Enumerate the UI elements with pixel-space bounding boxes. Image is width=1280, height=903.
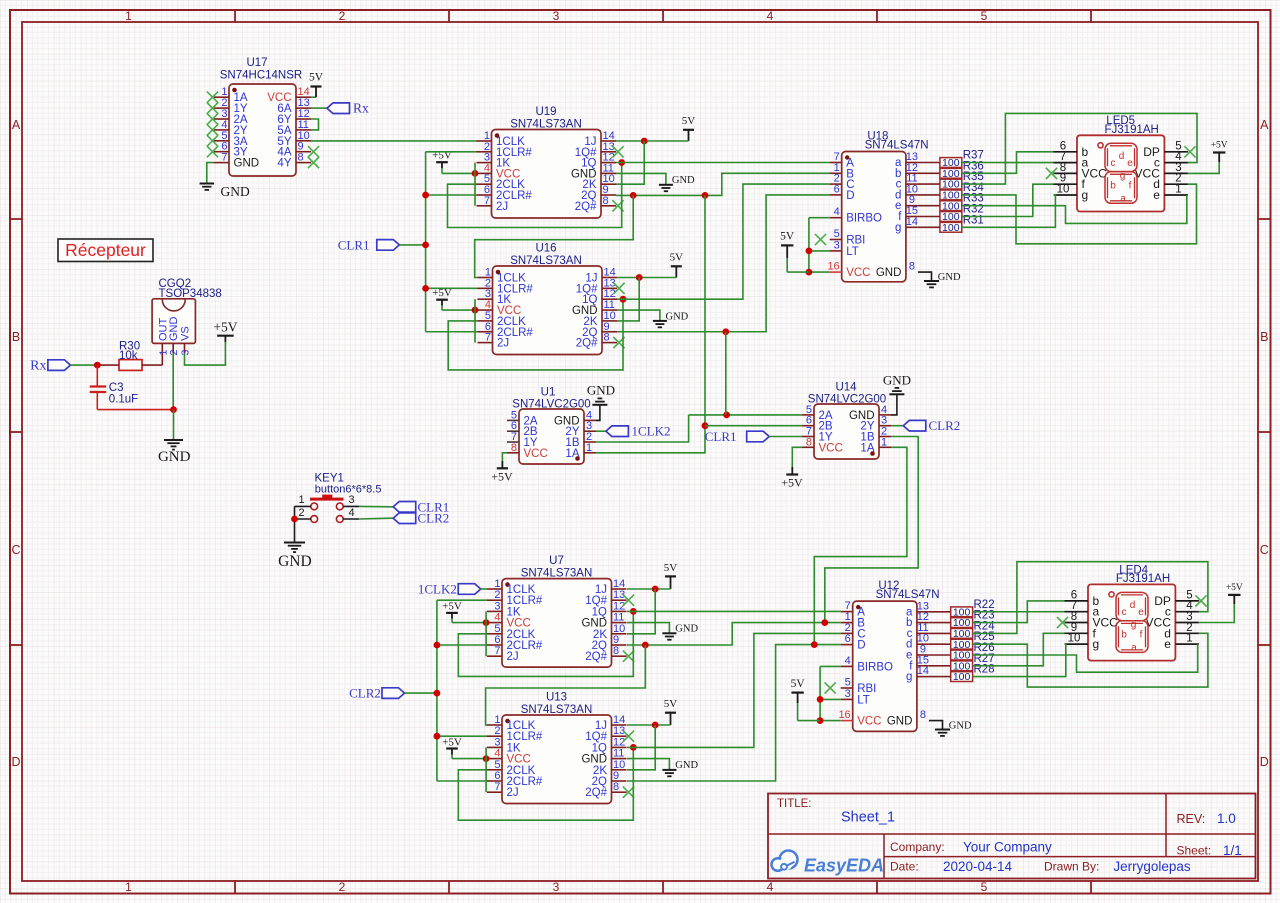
svg-text:VCC: VCC	[1082, 166, 1108, 180]
svg-text:2Q#: 2Q#	[585, 651, 607, 663]
wire segment c R35 to LED5	[962, 113, 1197, 184]
svg-text:SN74LS73AN: SN74LS73AN	[521, 567, 593, 579]
wire U19 1Q to U18 A	[616, 162, 830, 164]
svg-text:1: 1	[298, 494, 304, 506]
svg-text:C: C	[11, 543, 20, 557]
svg-text:8: 8	[920, 709, 926, 721]
ground GND at U12 pin8	[929, 721, 972, 736]
svg-text:16: 16	[827, 261, 839, 273]
wire Rx port to node	[70, 364, 97, 366]
power 5V at U16 1J	[617, 252, 683, 278]
wire U16 1Q to U18 C	[617, 184, 830, 299]
wire U1 1B to D1 net	[596, 415, 689, 442]
svg-text:C3: C3	[109, 382, 124, 394]
power 5V at U7 1J	[627, 562, 677, 589]
node CLR1 trunk at U19 2CLR#	[422, 192, 429, 199]
LED5 no-connect DP	[1184, 146, 1195, 157]
svg-text:GND: GND	[158, 449, 191, 465]
svg-text:2Q: 2Q	[592, 640, 607, 652]
svg-text:3: 3	[553, 880, 560, 894]
svg-text:1K: 1K	[507, 606, 521, 618]
svg-text:7: 7	[221, 152, 227, 164]
svg-text:e: e	[1164, 637, 1171, 651]
svg-text:VCC: VCC	[857, 716, 881, 728]
svg-text:14: 14	[613, 714, 625, 726]
ground GND at U7 pin11	[627, 623, 698, 640]
svg-text:100: 100	[953, 671, 971, 683]
svg-text:1Q#: 1Q#	[585, 731, 607, 743]
svg-text:0.1uF: 0.1uF	[109, 394, 138, 406]
title block	[768, 794, 1256, 879]
svg-text:1: 1	[494, 578, 500, 590]
svg-text:5V: 5V	[791, 678, 806, 690]
wire CGQ2 pin1 OUT down to R30 node	[161, 353, 163, 365]
svg-text:8: 8	[909, 261, 915, 273]
svg-text:GND: GND	[938, 272, 961, 283]
svg-text:1Q: 1Q	[592, 606, 607, 618]
svg-text:+5V: +5V	[781, 476, 803, 490]
svg-text:RBI: RBI	[846, 235, 865, 247]
svg-text:2J: 2J	[496, 201, 508, 213]
svg-text:VCC: VCC	[819, 442, 843, 454]
svg-text:+5V: +5V	[442, 736, 462, 748]
node U12 D junction	[811, 641, 818, 648]
node CLR2 trunk at port	[434, 690, 441, 697]
svg-text:1CLR#: 1CLR#	[507, 731, 543, 743]
port CLR2 at KEY1	[393, 513, 416, 524]
port Rx at receiver input	[48, 360, 71, 371]
wire CLR1 trunk vertical	[425, 152, 427, 332]
power 5V at U12 VCC	[791, 678, 821, 721]
svg-text:10k: 10k	[119, 350, 138, 362]
svg-text:D: D	[11, 755, 20, 769]
wire CLR2 port to trunk	[405, 692, 437, 694]
svg-text:e: e	[1127, 158, 1133, 169]
svg-text:Sheet_1: Sheet_1	[841, 810, 895, 826]
wire U19 1Q feedback to 2CLK	[448, 163, 622, 228]
node CLR1 trunk at U16 1CLR#	[422, 285, 429, 292]
wire segment f R27 to LED4	[972, 633, 1064, 666]
svg-text:1: 1	[125, 880, 132, 894]
resistors R22-R28 100 ohm	[951, 599, 995, 619]
wire KEY1 pins 1-2 to ground	[294, 506, 296, 542]
svg-text:5V: 5V	[670, 252, 684, 264]
svg-text:A: A	[12, 118, 21, 132]
wire segment d R25 to LED4	[972, 633, 1208, 687]
svg-text:GND: GND	[949, 721, 972, 732]
wire trunk to U16 pin6 2CLR#	[426, 331, 478, 333]
LED5 no-connect VCC left	[1046, 168, 1057, 179]
wire trunk to U13 pin6 2CLR#	[437, 780, 487, 782]
wire segment b R23 to LED4	[972, 601, 1064, 623]
svg-text:1K: 1K	[507, 742, 521, 754]
wire segment e R33 to LED5	[962, 195, 1187, 223]
node U13 VCC junction	[483, 755, 490, 762]
svg-text:11: 11	[613, 748, 624, 760]
svg-text:7: 7	[485, 332, 491, 344]
svg-text:VS: VS	[180, 326, 192, 341]
svg-text:1J: 1J	[595, 584, 607, 596]
svg-text:g: g	[895, 222, 901, 234]
wire trunk to U19 pin2 1CLR#	[426, 151, 477, 153]
svg-text:5V: 5V	[664, 562, 678, 574]
svg-text:1/1: 1/1	[1223, 843, 1242, 858]
wire U17 pin13 to Rx port	[311, 107, 327, 109]
ground GND at U16 pin11	[617, 310, 689, 327]
svg-text:5V: 5V	[309, 72, 324, 84]
ground GND below KEY1	[278, 543, 312, 571]
node U18 VCC junction	[806, 269, 813, 276]
svg-text:SN74LVC2G00: SN74LVC2G00	[512, 399, 590, 411]
svg-text:SN74LS73AN: SN74LS73AN	[510, 255, 582, 267]
svg-text:3: 3	[348, 494, 354, 506]
wire CLR1 port to trunk	[399, 244, 425, 246]
svg-text:2Q#: 2Q#	[575, 201, 597, 213]
wire U17 pin10 to U19 pin1 1CLK	[311, 140, 477, 142]
wire U14 2A from D1 net	[689, 414, 802, 416]
svg-text:CLR1: CLR1	[338, 237, 370, 252]
svg-text:4: 4	[834, 206, 840, 218]
pushbutton KEY1 button6*6*8.5	[295, 473, 382, 523]
U18 no-connect mark RBI	[815, 234, 826, 245]
svg-text:12: 12	[613, 600, 625, 612]
node CLR2 trunk at U7 2CLR#	[434, 642, 441, 649]
node U19 1J junction	[641, 138, 648, 145]
svg-text:U17: U17	[246, 57, 267, 69]
svg-text:C: C	[1260, 543, 1269, 557]
IC U13 SN74LS73AN	[487, 692, 634, 804]
svg-text:LT: LT	[846, 246, 859, 258]
svg-text:1: 1	[586, 442, 592, 454]
svg-text:GND: GND	[168, 317, 180, 342]
node CLR2 trunk at U13 1CLR#	[434, 733, 441, 740]
svg-text:2CLK: 2CLK	[507, 629, 536, 641]
svg-text:Drawn By:: Drawn By:	[1044, 860, 1099, 874]
wire U7 1J to 2K	[627, 589, 655, 634]
svg-text:c: c	[1122, 607, 1127, 618]
node CLR1 trunk at port	[422, 242, 429, 249]
ground GND at U13 pin11	[627, 759, 698, 777]
svg-text:14: 14	[906, 216, 918, 228]
svg-text:VCC: VCC	[524, 448, 548, 460]
svg-text:6: 6	[834, 183, 840, 195]
node U7 1Q junction	[630, 608, 637, 615]
logo EasyEDA	[772, 851, 885, 876]
wire trunk to U19 pin6 2CLR#	[426, 194, 477, 196]
wire CGQ2 pin3 VS to +5V	[185, 342, 226, 365]
IC U18 SN74LS47N	[827, 131, 928, 282]
wire KEY1 pin4 to CLR2 port	[359, 517, 393, 520]
svg-text:5V: 5V	[664, 698, 678, 710]
port CLR1 at U14 1Y	[747, 431, 770, 442]
IC U19 SN74LS73AN	[477, 106, 624, 218]
svg-text:TSOP34838: TSOP34838	[159, 288, 222, 300]
svg-text:100: 100	[942, 222, 960, 234]
svg-text:a: a	[1120, 193, 1126, 204]
wire U13 2Q to U12 D	[627, 645, 841, 781]
port Rx at U17	[327, 103, 350, 114]
wire U19 2Q to U18 B	[616, 173, 830, 195]
power +5V at LED5	[1188, 141, 1228, 174]
frame row ticks	[10, 219, 1271, 645]
wire CGQ2 pin2 GND down	[172, 353, 174, 410]
svg-text:GND: GND	[581, 754, 607, 766]
node GND junction below CGQ2	[170, 406, 177, 413]
svg-text:CLR2: CLR2	[929, 418, 961, 433]
svg-text:FJ3191AH: FJ3191AH	[1105, 124, 1159, 136]
svg-text:a: a	[1131, 642, 1137, 653]
svg-text:1: 1	[1175, 184, 1181, 196]
svg-text:5: 5	[981, 880, 988, 894]
svg-text:12: 12	[613, 736, 625, 748]
svg-text:GND: GND	[221, 184, 250, 199]
svg-text:Jerrygolepas: Jerrygolepas	[1113, 859, 1191, 874]
svg-text:BIRBO: BIRBO	[846, 213, 882, 225]
node U12 B junction	[821, 619, 828, 626]
svg-text:8: 8	[604, 332, 610, 344]
ground GND at U18 pin8	[918, 272, 961, 287]
svg-text:GND: GND	[587, 383, 615, 398]
svg-text:4: 4	[494, 748, 500, 760]
svg-text:1A: 1A	[565, 448, 579, 460]
IC U14 SN74LVC2G00	[802, 382, 891, 460]
node U19 2Q first junction	[630, 192, 637, 199]
capacitor C3 0.1uF	[90, 365, 139, 410]
node U16 2Q junction	[722, 328, 729, 335]
node U14 2B junction	[702, 422, 709, 429]
svg-text:7: 7	[494, 645, 500, 657]
ground GND below CGQ2	[158, 440, 191, 465]
svg-text:1CLK2: 1CLK2	[418, 582, 457, 597]
svg-text:SN74LS47N: SN74LS47N	[865, 140, 929, 152]
svg-text:3: 3	[494, 736, 500, 748]
node U12 LT junction	[817, 696, 824, 703]
svg-text:B: B	[1260, 330, 1268, 344]
svg-text:11: 11	[613, 612, 624, 624]
ground GND at U19 pin11	[616, 173, 695, 191]
U12 no-connect mark RBI	[825, 682, 836, 693]
power +5V at U16 VCC	[432, 287, 477, 310]
svg-text:CLR2: CLR2	[349, 686, 381, 701]
frame column ticks	[235, 10, 1091, 894]
wire U19 1J to 2K	[616, 141, 644, 184]
svg-text:4: 4	[767, 9, 774, 23]
svg-text:VCC: VCC	[507, 754, 531, 766]
svg-text:b: b	[1121, 629, 1127, 640]
svg-text:2: 2	[168, 350, 180, 356]
power +5V at U13 VCC	[442, 736, 487, 758]
svg-text:1CLK: 1CLK	[507, 720, 536, 732]
svg-text:d: d	[1130, 600, 1136, 611]
svg-text:d: d	[1119, 151, 1125, 162]
node U13 1Q junction	[630, 744, 637, 751]
svg-text:1Q: 1Q	[592, 742, 607, 754]
svg-text:8: 8	[603, 195, 609, 207]
IC U7 SN74LS73AN	[487, 555, 634, 667]
wire U16 1J to 2K	[617, 278, 639, 321]
LED4 no-connect DP	[1195, 595, 1206, 606]
svg-text:U7: U7	[549, 555, 564, 567]
power +5V at U19 VCC	[432, 150, 476, 174]
port CLR1 at trunk	[377, 240, 400, 251]
svg-text:GND: GND	[876, 267, 902, 279]
wire CLR1 port to U14 1Y	[769, 436, 802, 438]
wire U1 2Y to 1CLK2 port	[596, 430, 606, 432]
power +5V at LED4	[1199, 583, 1243, 623]
svg-text:2CLK: 2CLK	[507, 765, 536, 777]
power 5V at U17 pin14	[309, 72, 324, 98]
port 1CLK2 at U1	[606, 426, 629, 437]
svg-text:f: f	[1129, 180, 1132, 191]
wire U13 1Q feedback to 2CLK	[458, 747, 633, 820]
svg-text:5: 5	[845, 677, 851, 689]
svg-text:7: 7	[494, 781, 500, 793]
LED LED5 FJ3191AH	[1054, 115, 1188, 212]
wire U13 1Q to U12 C	[627, 633, 841, 747]
wire segment d R34 to LED5	[962, 184, 1197, 244]
svg-text:2: 2	[494, 589, 500, 601]
svg-text:3: 3	[834, 239, 840, 251]
svg-text:1: 1	[1186, 633, 1192, 645]
wire U12 BIRBO-LT-VCC tie	[820, 666, 841, 720]
svg-text:TITLE:: TITLE:	[777, 798, 812, 810]
svg-text:4: 4	[767, 880, 774, 894]
svg-text:c: c	[1111, 158, 1116, 169]
power 5V at U18 VCC	[780, 231, 809, 273]
svg-text:GND: GND	[675, 760, 698, 771]
node U16 1Q junction	[620, 296, 627, 303]
power 5V at U19 1J	[616, 115, 695, 141]
wire U14 2Y to CLR2 port	[891, 425, 903, 427]
svg-text:B: B	[12, 330, 20, 344]
svg-text:1: 1	[494, 714, 500, 726]
resistors R37-R31 100 ohm	[940, 150, 984, 170]
svg-text:1CLR#: 1CLR#	[507, 595, 543, 607]
wire segment a R22 to LED4	[972, 611, 1064, 613]
wire U7 2Q to U13 1CLK	[486, 645, 646, 725]
svg-text:10: 10	[613, 623, 625, 635]
frame column numbers top	[125, 9, 988, 23]
wire U19 1K-VCC-2J tie	[474, 163, 476, 206]
svg-text:e: e	[1153, 188, 1160, 202]
svg-text:10: 10	[1057, 184, 1070, 196]
svg-text:2J: 2J	[507, 787, 519, 799]
svg-text:4: 4	[845, 655, 851, 667]
IC U17 SN74HC14NSR	[214, 57, 311, 176]
svg-text:2: 2	[845, 622, 851, 634]
frame column numbers bottom	[125, 880, 988, 894]
svg-text:CLR1: CLR1	[705, 429, 737, 444]
power +5V at U7 VCC	[442, 600, 487, 622]
node U19 1Q junction	[618, 159, 625, 166]
IC CGQ2 TSOP34838 IR receiver	[152, 278, 222, 356]
svg-text:D: D	[857, 640, 865, 652]
wire KEY1 pin3 to CLR1 port	[359, 505, 393, 507]
wire U19 2Q to U16 1CLK	[475, 195, 634, 277]
wire trunk to U7 pin6 2CLR#	[437, 644, 487, 646]
svg-text:U19: U19	[535, 106, 556, 118]
svg-text:8: 8	[613, 781, 619, 793]
IC U12 SN74LS47N	[838, 580, 939, 731]
svg-text:U16: U16	[535, 243, 556, 255]
LED4 no-connect VCC left	[1057, 617, 1068, 628]
svg-text:SN74LS73AN: SN74LS73AN	[510, 118, 582, 130]
svg-text:5V: 5V	[682, 115, 696, 127]
port 1CLK2 at U7 1CLK	[458, 584, 481, 595]
wire U7 1Q to U12 A	[627, 610, 841, 612]
svg-text:2020-04-14: 2020-04-14	[943, 859, 1013, 874]
svg-text:GND: GND	[581, 618, 607, 630]
svg-text:2Q: 2Q	[592, 776, 607, 788]
svg-text:Rx: Rx	[353, 101, 369, 116]
svg-text:3: 3	[494, 600, 500, 612]
wire U17 pin7 to ground	[207, 163, 214, 184]
svg-text:10: 10	[613, 759, 625, 771]
wire U7 1K-VCC-2J tie	[485, 611, 487, 656]
svg-text:2K: 2K	[593, 765, 607, 777]
svg-text:4Y: 4Y	[277, 158, 291, 170]
svg-text:2K: 2K	[593, 629, 607, 641]
wire trunk to U13 pin2 1CLR#	[437, 735, 487, 737]
wire U7 1Q feedback to 2CLK	[458, 611, 633, 676]
svg-text:2: 2	[339, 9, 346, 23]
port CLR2 at U14	[903, 420, 926, 431]
svg-text:EasyEDA: EasyEDA	[804, 856, 884, 876]
svg-text:BIRBO: BIRBO	[857, 661, 893, 673]
svg-text:4: 4	[494, 612, 500, 624]
node U19 VCC junction	[472, 170, 479, 177]
svg-text:GND: GND	[675, 624, 698, 635]
wire segment e R26 to LED4	[972, 644, 1197, 672]
svg-text:2CLR#: 2CLR#	[507, 640, 543, 652]
svg-text:9: 9	[613, 770, 619, 782]
svg-text:e: e	[1138, 607, 1144, 618]
svg-text:SN74LS73AN: SN74LS73AN	[521, 704, 593, 716]
svg-text:g: g	[906, 671, 912, 683]
ground GND above U1 pin4	[587, 383, 615, 421]
svg-text:2CLR#: 2CLR#	[507, 776, 543, 788]
svg-text:3: 3	[553, 9, 560, 23]
svg-text:4: 4	[348, 507, 354, 519]
wire segment b R36 to LED5	[962, 152, 1054, 174]
wire U1 1A to B1 net vertical	[596, 195, 705, 452]
wires U18 outputs to resistors	[918, 163, 940, 228]
svg-text:2J: 2J	[507, 651, 519, 663]
svg-text:2Q#: 2Q#	[585, 787, 607, 799]
U17 no-connect marks pins 1-6	[207, 92, 218, 158]
svg-text:3: 3	[845, 688, 851, 700]
wire segment f R32 to LED5	[962, 184, 1054, 216]
node U14 2A junction	[723, 412, 730, 419]
wire C3 bottom to ground node	[97, 409, 173, 411]
wire 1CLK2 port to U7 pin1	[481, 588, 487, 590]
wire segment a R37 to LED5	[962, 162, 1054, 164]
svg-text:CLR2: CLR2	[418, 511, 450, 526]
ground GND above U14 pin4	[883, 372, 911, 415]
svg-text:VCC: VCC	[507, 618, 531, 630]
svg-text:RBI: RBI	[857, 683, 876, 695]
svg-text:8: 8	[806, 436, 812, 448]
svg-text:+5V: +5V	[442, 600, 462, 612]
wire U16 1K-VCC-2J tie	[474, 299, 476, 342]
svg-text:g: g	[1093, 637, 1100, 651]
svg-text:GND: GND	[883, 372, 911, 387]
svg-text:SN74HC14NSR: SN74HC14NSR	[220, 70, 302, 82]
node U18 LT junction	[806, 248, 813, 255]
svg-text:D: D	[846, 190, 854, 202]
svg-text:1A: 1A	[860, 442, 874, 454]
node U16 1J junction	[636, 274, 643, 281]
